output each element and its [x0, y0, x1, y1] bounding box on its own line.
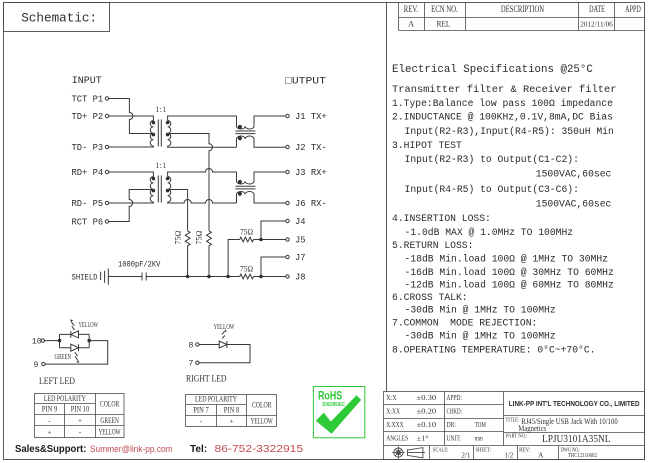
svg-text:APPD: APPD	[625, 4, 641, 15]
svg-text:INPUT: INPUT	[72, 76, 102, 87]
svg-text:TRC12110602: TRC12110602	[568, 452, 597, 459]
LED D2 green (points right)	[71, 344, 79, 351]
junction dot bus R1	[186, 275, 190, 279]
svg-text:-30dB Min @ 1MHz TO 100MHz: -30dB Min @ 1MHz TO 100MHz	[405, 304, 556, 315]
wire T1 secondary center tap down to R2 with hop	[169, 134, 213, 231]
svg-text:mm: mm	[475, 435, 483, 443]
pin P5 circle	[105, 201, 108, 204]
svg-text:ECN NO.: ECN NO.	[431, 4, 458, 14]
svg-text:-12dB Min.load 100Ω @ 60MHz TO: -12dB Min.load 100Ω @ 60MHz TO 80MHz	[405, 279, 614, 290]
svg-text:Electrical Specifications @25°: Electrical Specifications @25°C	[392, 64, 593, 76]
svg-text:J6 RX-: J6 RX-	[295, 199, 327, 209]
pin J1 circle	[286, 114, 289, 117]
LED pair left rail	[59, 334, 61, 347]
pin 8 circle	[196, 343, 199, 346]
junction dot bus R2	[207, 275, 211, 279]
svg-text:1:1: 1:1	[155, 104, 166, 114]
T1 secondary phase dot	[166, 121, 170, 125]
svg-text:TITLE:: TITLE:	[506, 417, 520, 424]
svg-text:6.CROSS TALK:: 6.CROSS TALK:	[392, 292, 468, 303]
pin P2 circle	[105, 114, 108, 117]
pin J2 circle	[286, 145, 289, 148]
svg-text:-1.0dB MAX @ 1.0MHz TO 100MHz: -1.0dB MAX @ 1.0MHz TO 100MHz	[405, 227, 574, 238]
svg-text:±0.20: ±0.20	[417, 407, 437, 415]
D3 arrow head	[225, 329, 227, 332]
wire P4 to T2 primary top	[109, 172, 154, 177]
svg-text:Tel:: Tel:	[190, 444, 207, 455]
transformer T2 primary winding	[150, 177, 153, 203]
wire P1 to T1 center tap with hop	[109, 99, 152, 134]
svg-text:1500VAC,60sec: 1500VAC,60sec	[536, 198, 612, 209]
svg-text:86-752-3322915: 86-752-3322915	[215, 444, 304, 455]
svg-text:X:XX: X:XX	[386, 408, 400, 416]
wire junction up to J7	[261, 257, 286, 277]
svg-text:Summer@link-pp.com: Summer@link-pp.com	[90, 443, 173, 454]
svg-text:YELLOW: YELLOW	[214, 323, 235, 331]
common mode choke CM2 bottom winding	[237, 191, 286, 203]
D2 light arrow	[75, 352, 78, 360]
svg-text:J5: J5	[295, 236, 306, 246]
svg-text:X:XXX: X:XXX	[386, 421, 404, 429]
common mode choke CM1 bottom winding	[237, 136, 286, 147]
svg-text:7: 7	[189, 360, 194, 369]
left LED node dot left	[58, 339, 62, 343]
pin J7 circle	[286, 255, 289, 258]
svg-text:-18dB Min.load 100Ω @ 1MHz TO: -18dB Min.load 100Ω @ 1MHz TO 30MHz	[405, 254, 609, 265]
svg-text:PIN 10: PIN 10	[71, 405, 90, 414]
svg-text:RoHS: RoHS	[318, 391, 342, 403]
svg-text:SHIELD: SHIELD	[72, 273, 98, 283]
bottom rail wire	[60, 347, 90, 349]
shield bus wire	[146, 276, 240, 278]
svg-text:APPD:: APPD:	[447, 394, 463, 402]
svg-text:RIGHT LED: RIGHT LED	[186, 373, 226, 384]
svg-text:RCT P6: RCT P6	[72, 218, 104, 228]
pin 7 circle	[196, 361, 199, 364]
LED D3 yellow (points right)	[219, 341, 227, 348]
LED pair right rail	[88, 334, 90, 347]
projection symbol cone	[408, 448, 426, 458]
wire P2 to T1 primary top	[109, 116, 154, 121]
wire T1 secondary top to CM1	[168, 116, 237, 121]
svg-text:-16dB Min.load 100Ω @ 30MHz TO: -16dB Min.load 100Ω @ 30MHz TO 60MHz	[405, 267, 614, 278]
CM2 bottom dot	[238, 192, 242, 196]
svg-text:+: +	[47, 427, 51, 436]
T1 secondary center tap dot	[166, 133, 170, 137]
svg-text:PIN 8: PIN 8	[224, 405, 240, 415]
D1 arrow head	[70, 319, 73, 321]
wire P3 to T1 primary bottom	[109, 146, 154, 147]
svg-text:8.OPERATING TEMPERATURE: 0°C~+: 8.OPERATING TEMPERATURE: 0°C~+70°C.	[392, 345, 595, 356]
svg-text:3.HIPOT TEST: 3.HIPOT TEST	[392, 140, 462, 151]
junction dot bus branch	[226, 275, 230, 279]
resistor R2 vertical 75 ohm	[207, 231, 212, 277]
title block outer	[384, 392, 645, 460]
svg-text:10: 10	[32, 337, 42, 346]
junction dot J4/J5	[259, 238, 263, 242]
svg-text:A: A	[408, 19, 415, 29]
svg-text:DESCRIPTION: DESCRIPTION	[501, 4, 544, 14]
title block grid lines	[384, 404, 504, 406]
common mode choke CM1 top winding	[237, 116, 286, 129]
svg-text:TCT P1: TCT P1	[72, 95, 104, 105]
svg-text:4.INSERTION LOSS:: 4.INSERTION LOSS:	[392, 213, 491, 224]
svg-text:PIN 9: PIN 9	[42, 404, 58, 414]
capacitor C1 1000pF/2KV	[142, 273, 146, 281]
svg-text:LED POLARITY: LED POLARITY	[195, 395, 237, 404]
svg-text:75Ω: 75Ω	[240, 227, 253, 236]
svg-text:2012/11/06: 2012/11/06	[580, 19, 613, 28]
svg-text:8: 8	[189, 341, 194, 350]
svg-text:LED POLARITY: LED POLARITY	[44, 394, 86, 403]
common mode choke CM2 core	[235, 186, 255, 189]
svg-text:±1°: ±1°	[417, 434, 429, 442]
wire up from bus to R3	[228, 240, 240, 277]
wire R3 to J5	[254, 239, 286, 241]
common mode choke CM1 core	[235, 131, 255, 134]
pin J6 circle	[286, 201, 289, 204]
svg-text:DR:: DR:	[447, 421, 457, 429]
transformer T1 secondary winding	[168, 121, 171, 147]
schematic title box	[4, 3, 110, 32]
svg-text:-: -	[79, 427, 82, 436]
resistor R3 horizontal 75 ohm	[240, 237, 254, 242]
wire junction up to J4	[261, 221, 286, 240]
svg-text:Input(R2-R3) to Output(C1-C2):: Input(R2-R3) to Output(C1-C2):	[405, 154, 579, 165]
svg-text:CHKD:: CHKD:	[447, 407, 463, 415]
wire T2 secondary center tap down to R1	[169, 190, 188, 231]
CM2 top dot	[238, 180, 242, 184]
svg-text:J7: J7	[295, 253, 306, 263]
svg-text:DATE: DATE	[589, 4, 605, 15]
svg-text:1500VAC,60sec: 1500VAC,60sec	[536, 169, 612, 180]
wire D3 to pin 7	[199, 345, 250, 363]
svg-text:75Ω: 75Ω	[240, 264, 253, 273]
pin P1 circle	[105, 97, 108, 100]
svg-text:A: A	[538, 451, 543, 459]
svg-text:TD+ P2: TD+ P2	[72, 112, 104, 122]
svg-text:+: +	[229, 417, 233, 426]
wire pin8 to LED D3	[199, 344, 219, 346]
page divider	[386, 3, 388, 392]
D2 arrow head	[76, 361, 79, 363]
transformer T1 primary winding	[150, 121, 153, 147]
pin J5 circle	[286, 238, 289, 241]
T2 primary phase dot	[152, 177, 156, 181]
wire T1 secondary bottom	[168, 146, 237, 147]
svg-text:SHEET:: SHEET:	[476, 447, 492, 454]
svg-text:J3 RX+: J3 RX+	[295, 168, 327, 178]
svg-text:YELLOW: YELLOW	[251, 418, 273, 426]
resistor R4 horizontal 75 ohm	[240, 274, 254, 279]
svg-text:75Ω: 75Ω	[195, 230, 204, 244]
shield chassis symbol	[101, 269, 109, 285]
svg-text:REL: REL	[437, 19, 451, 29]
pin P4 circle	[105, 170, 108, 173]
RoHS checkmark	[316, 395, 361, 434]
svg-text:YELLOW: YELLOW	[79, 321, 99, 329]
svg-text:GREEN: GREEN	[100, 417, 119, 425]
svg-text:-: -	[48, 416, 51, 425]
CM1 top dot	[238, 125, 242, 129]
svg-text:-: -	[200, 417, 203, 426]
svg-text:-30dB Min @ 1MHz TO 100MHz: -30dB Min @ 1MHz TO 100MHz	[405, 331, 556, 342]
projection symbol circle	[394, 448, 403, 457]
svg-text:LPJU3101A35NL: LPJU3101A35NL	[542, 433, 610, 444]
wire T2 secondary bottom with hops	[168, 200, 237, 203]
pin 10 circle	[41, 339, 44, 342]
D3 light arrow	[222, 331, 225, 338]
svg-text:+: +	[78, 416, 82, 425]
transformer T2 secondary winding	[168, 177, 171, 203]
svg-text:X:X: X:X	[386, 394, 397, 402]
svg-text:J4: J4	[295, 217, 306, 227]
pin J8 circle	[286, 275, 289, 278]
svg-text:±0.30: ±0.30	[417, 393, 437, 401]
svg-text:SCALE:: SCALE:	[433, 447, 449, 454]
svg-text:J1 TX+: J1 TX+	[295, 112, 327, 122]
T1 primary center tap dot	[152, 133, 156, 137]
RoHS box	[313, 387, 364, 438]
svg-text:GREEN: GREEN	[55, 353, 72, 361]
top rail wire	[60, 333, 90, 335]
svg-text:75Ω: 75Ω	[174, 230, 183, 244]
wire P5 to T2 primary bottom	[109, 202, 154, 203]
T1 primary phase dot	[152, 121, 156, 125]
wire to pin 9	[45, 341, 108, 365]
svg-text:COLOR: COLOR	[100, 400, 120, 409]
svg-text:J8: J8	[295, 273, 306, 283]
left LED node dot right	[87, 339, 91, 343]
svg-text:ANGLES: ANGLES	[386, 435, 408, 443]
svg-text:PIN 7: PIN 7	[193, 405, 209, 415]
svg-text:LINK-PP INT'L TECHNOLOGY CO.,: LINK-PP INT'L TECHNOLOGY CO., LIMITED	[509, 400, 640, 408]
svg-text:PART NO.:: PART NO.:	[506, 433, 528, 440]
pin P3 circle	[105, 145, 108, 148]
svg-text:2.INDUCTANCE @ 100KHz,0.1V,8mA: 2.INDUCTANCE @ 100KHz,0.1V,8mA,DC Bias	[392, 112, 613, 123]
resistor R1 vertical 75 ohm	[185, 231, 190, 277]
svg-text:UNIT:: UNIT:	[447, 435, 462, 443]
svg-text:RD+ P4: RD+ P4	[72, 168, 104, 178]
svg-text:□UTPUT: □UTPUT	[285, 76, 326, 87]
svg-text:Transmitter filter & Receiver: Transmitter filter & Receiver filter	[392, 84, 616, 96]
svg-text:1/2: 1/2	[504, 451, 513, 459]
junction dot J7/J8	[259, 275, 263, 279]
svg-text:1.Type:Balance low pass 100Ω i: 1.Type:Balance low pass 100Ω impedance	[392, 98, 613, 109]
svg-text:±0.10: ±0.10	[417, 420, 437, 428]
pin P6 circle	[105, 220, 108, 223]
svg-text:9: 9	[34, 361, 39, 370]
common mode choke CM2 top winding	[237, 172, 286, 184]
T2 primary center tap dot	[152, 189, 156, 193]
right table border	[186, 395, 277, 427]
svg-text:RD- P5: RD- P5	[72, 199, 104, 209]
svg-text:YELLOW: YELLOW	[99, 428, 121, 436]
LED D1 yellow (points left)	[71, 331, 79, 338]
svg-text:LEFT LED: LEFT LED	[39, 376, 75, 387]
svg-text:1:1: 1:1	[155, 160, 166, 170]
svg-text:Sales&Support:: Sales&Support:	[15, 444, 86, 455]
T2 secondary phase dot	[166, 177, 170, 181]
svg-text:REV:: REV:	[519, 447, 530, 454]
svg-text:1000pF/2KV: 1000pF/2KV	[118, 260, 161, 270]
pin J3 circle	[286, 170, 289, 173]
wire T2 secondary top to CM2 with hop	[168, 169, 237, 177]
svg-text:TOM: TOM	[475, 421, 487, 429]
D1 light arrow	[71, 322, 74, 330]
svg-text:5.RETURN LOSS:: 5.RETURN LOSS:	[392, 240, 473, 251]
svg-text:2/1: 2/1	[461, 451, 470, 459]
wire R4 to J8	[254, 276, 286, 278]
wire pin10 to LED pair	[45, 340, 60, 342]
svg-text:Input(R4-R5) to Output(C3-C6):: Input(R4-R5) to Output(C3-C6):	[405, 184, 579, 195]
wire P6 to T2 center tap with hop	[109, 190, 152, 222]
svg-text:Input(R2-R3),Input(R4-R5): 350: Input(R2-R3),Input(R4-R5): 350uH Min	[405, 126, 614, 137]
left table border	[35, 394, 125, 438]
transformer T1 core	[158, 120, 161, 147]
svg-text:Schematic:: Schematic:	[21, 10, 97, 25]
svg-text:TD- P3: TD- P3	[72, 143, 104, 153]
svg-text:COLOR: COLOR	[252, 401, 272, 410]
svg-text:J2 TX-: J2 TX-	[295, 143, 327, 153]
revision table lines	[399, 3, 645, 31]
CM1 bottom dot	[238, 136, 242, 140]
svg-text:7.COMMON MODE REJECTION:: 7.COMMON MODE REJECTION:	[392, 318, 537, 329]
svg-text:REV.: REV.	[404, 4, 418, 14]
svg-text:2002/95/EC: 2002/95/EC	[322, 402, 345, 409]
pin J4 circle	[286, 219, 289, 222]
pin 9 circle	[42, 362, 45, 365]
T2 secondary center tap dot	[166, 189, 170, 193]
transformer T2 core	[158, 176, 161, 203]
wire shield to capacitor	[108, 276, 142, 278]
